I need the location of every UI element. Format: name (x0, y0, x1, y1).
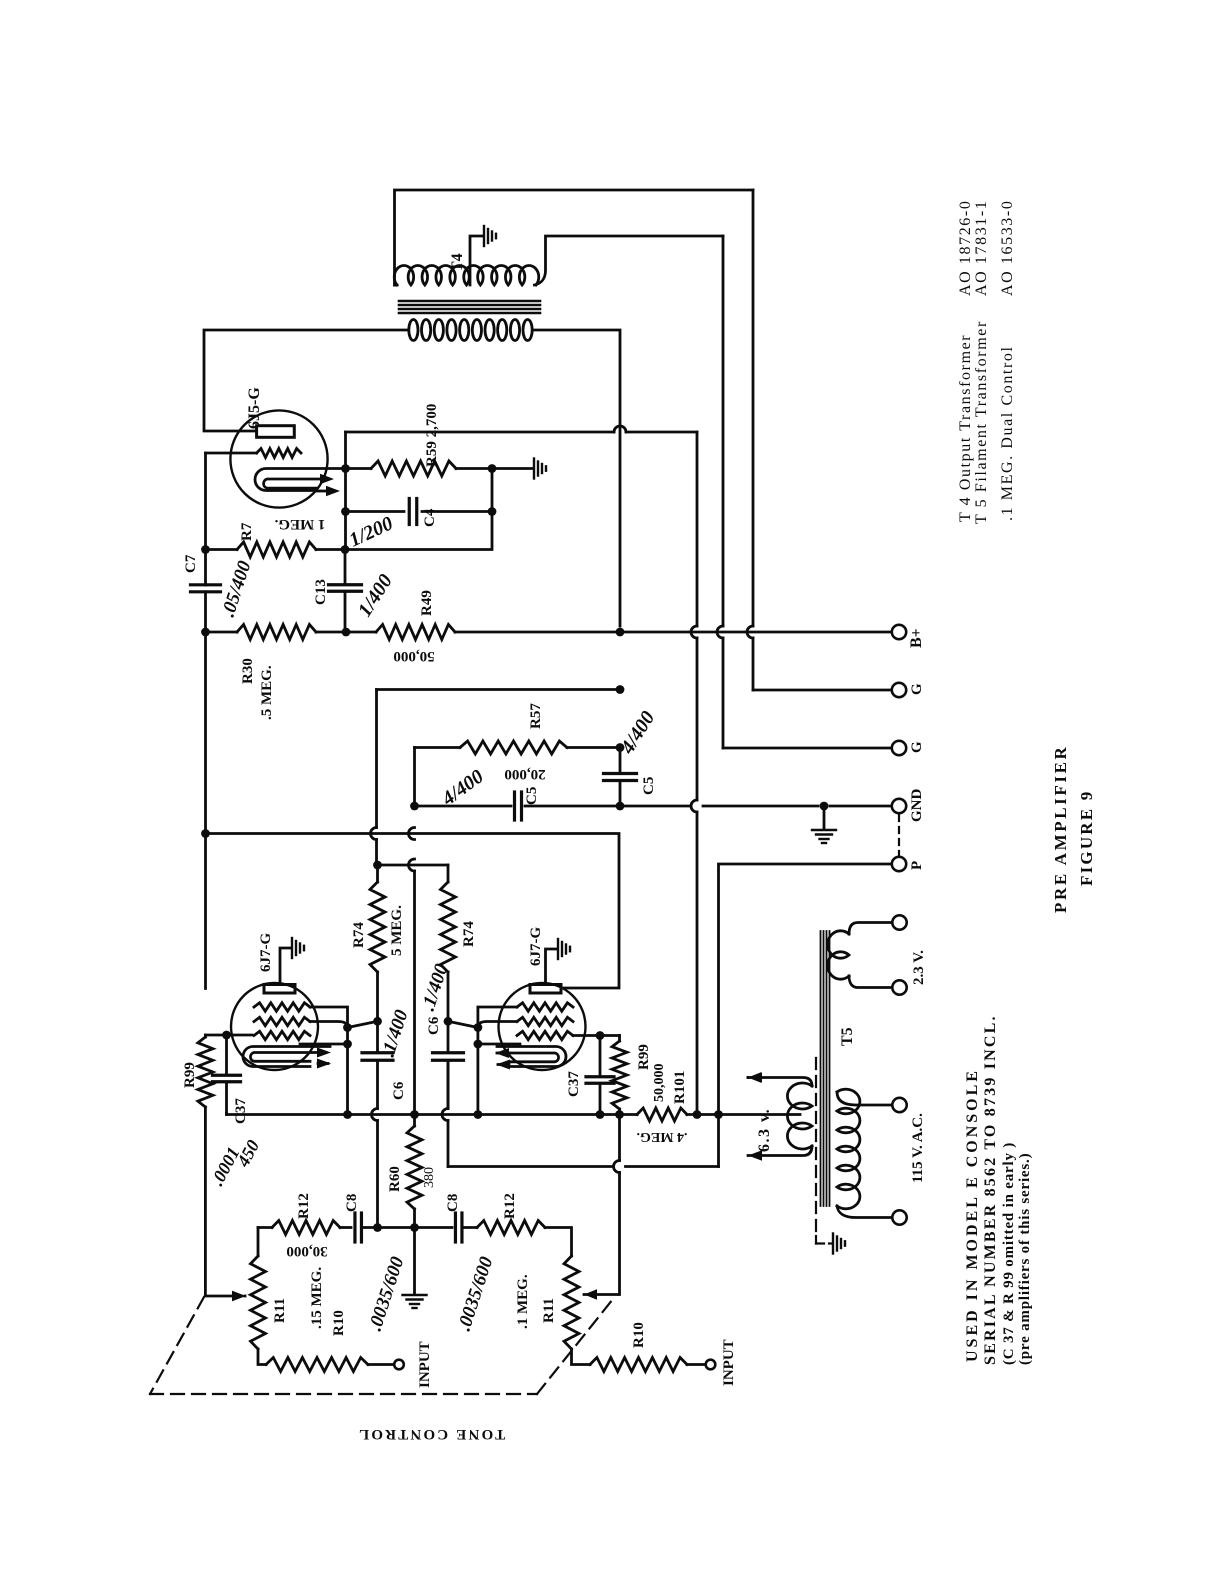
6J7 left plate (264, 985, 295, 994)
tone control dashed outline (150, 1297, 204, 1394)
svg-text:FIGURE 9: FIGURE 9 (1077, 790, 1096, 886)
terminal P (892, 857, 906, 871)
T5 core dashed (815, 1058, 817, 1236)
6J7 left cathode (243, 1047, 330, 1067)
svg-text:R101: R101 (672, 1071, 688, 1104)
ground at C8 row (413, 1228, 416, 1294)
svg-text:.4 MEG.: .4 MEG. (637, 1129, 688, 1144)
node C37 left top (222, 1031, 231, 1040)
svg-text:USED IN MODEL E CONSOLE: USED IN MODEL E CONSOLE (964, 1068, 981, 1362)
svg-text:.15 MEG.: .15 MEG. (309, 1267, 325, 1329)
svg-text:C13: C13 (313, 579, 329, 605)
wire R74 top row (378, 864, 449, 867)
transformer T5 primary winding (837, 1092, 893, 1105)
terminal 115V lower (892, 1210, 906, 1224)
T5 core solid (820, 931, 822, 1206)
6J7 left cathode arrows (317, 1048, 331, 1058)
node row3b (343, 1040, 352, 1049)
capacitor C37 right (599, 1036, 602, 1076)
resistor R59 (347, 467, 371, 470)
node B+ bus junction (616, 628, 625, 637)
node R74/C6 right (444, 1017, 453, 1026)
node R74 left top (373, 861, 382, 870)
6J7 right plate (530, 985, 561, 994)
svg-text:.1 MEG. Dual Control: .1 MEG. Dual Control (999, 345, 1016, 521)
capacitor C6 right (447, 1021, 450, 1052)
wire 6J7 left row3a to R99 (205, 1034, 252, 1037)
arrow R11 right wiper (584, 1293, 618, 1296)
svg-text:R57: R57 (528, 703, 544, 729)
wire T4 primary right lead (534, 330, 620, 626)
node row2 right junction (474, 1023, 483, 1032)
wire G2 row left segment (415, 746, 461, 749)
wire rail to R99 bottom (204, 1107, 207, 1295)
svg-text:R12: R12 (502, 1193, 518, 1219)
wire center column upper (413, 748, 416, 807)
ground at R59 (533, 459, 535, 479)
svg-text:T4: T4 (449, 253, 466, 272)
node GND ground stub (820, 802, 829, 811)
svg-text:C8: C8 (344, 1194, 360, 1212)
svg-text:1 MEG.: 1 MEG. (274, 516, 325, 532)
6J5 grid (257, 449, 301, 458)
wire P terminal lead (719, 864, 892, 1111)
wire 6J7 left row1 (310, 1007, 348, 1111)
svg-text:6J7-G: 6J7-G (258, 933, 274, 972)
terminal G2 (892, 741, 906, 755)
resistor R74 right (441, 882, 456, 972)
svg-text:AO 17831-1: AO 17831-1 (973, 200, 990, 296)
capacitor C7 (191, 583, 221, 586)
node cathode junction (341, 464, 350, 473)
svg-text:6J5-G: 6J5-G (246, 387, 263, 429)
transformer T5 6.3V winding (787, 1083, 812, 1149)
potentiometer R11 left (251, 1256, 266, 1349)
terminal INPUT right (706, 1360, 716, 1370)
ground at GND terminal (823, 806, 826, 828)
svg-text:R60: R60 (387, 1166, 403, 1192)
jog C6 right column over bus (442, 1109, 448, 1121)
svg-text:6J7-G: 6J7-G (528, 927, 544, 966)
bus junction nodes (343, 1110, 352, 1119)
resistor R57 (460, 741, 567, 754)
svg-text:GND: GND (909, 789, 925, 823)
node rail row B (201, 829, 210, 838)
resistor R7 (206, 548, 238, 551)
terminal G1 (892, 683, 906, 697)
wire C8 row right (415, 1226, 453, 1229)
jog R11 feed over coupling row (614, 1161, 620, 1173)
wire 6J7 left row3b (300, 1043, 348, 1046)
resistor R10 right (572, 1349, 591, 1365)
wire G1 terminal lead (753, 689, 891, 692)
resistor R99 left (204, 1035, 207, 1037)
node C8 row left (373, 1223, 382, 1232)
wire C6 left column to C8 row (376, 1121, 379, 1228)
svg-text:G: G (909, 741, 925, 753)
wire 6.3V center tap (719, 1113, 801, 1116)
svg-text:R30: R30 (240, 658, 256, 684)
capacitor C37 left (225, 1035, 228, 1074)
node C4 right (488, 507, 497, 516)
resistor R60 (413, 1115, 416, 1127)
6J7 right grid cap lead (546, 949, 557, 984)
svg-text:C8: C8 (445, 1194, 461, 1212)
wire coupling row y=1166.5 (626, 1165, 719, 1168)
arrow R11 left wiper (244, 1295, 247, 1298)
terminal INPUT left (394, 1360, 404, 1370)
wire cathode junction column (344, 432, 347, 550)
wire GND row (415, 805, 512, 808)
svg-text:T5: T5 (839, 1027, 856, 1046)
svg-text:R74: R74 (351, 922, 367, 948)
6J7 left grid cap lead (280, 948, 290, 984)
svg-text:C4: C4 (422, 508, 438, 527)
resistor R12 left (258, 1226, 272, 1229)
wire bus x=723 from T4 to G terminal (722, 236, 725, 626)
svg-text:30,000: 30,000 (286, 1243, 327, 1259)
svg-text:C37: C37 (566, 1071, 582, 1097)
svg-text:R99: R99 (636, 1044, 652, 1070)
svg-text:20,000: 20,000 (504, 766, 545, 782)
resistor R99 right (618, 1036, 621, 1042)
wire C8 row middle (378, 1226, 415, 1229)
node row2 junction (343, 1023, 352, 1032)
wire R74 left bottom lead (376, 972, 379, 1021)
wire R59/C4 right return (346, 469, 493, 550)
wire 6J7 right row3b (478, 1043, 520, 1046)
capacitor C8 right (454, 1213, 457, 1242)
wire G1 row left segment (377, 688, 621, 691)
terminal GND (892, 799, 906, 813)
svg-text:R74: R74 (461, 921, 477, 947)
svg-text:C5: C5 (524, 787, 540, 805)
svg-text:AO 16533-0: AO 16533-0 (999, 200, 1016, 296)
svg-text:6.3 v.: 6.3 v. (756, 1108, 773, 1152)
wire T4 center tap (470, 236, 482, 285)
node row3b right (474, 1040, 483, 1049)
svg-text:.1 MEG.: .1 MEG. (515, 1274, 531, 1329)
wire T5 core ground lead (815, 1236, 817, 1244)
wire T4 secondary top lead (395, 190, 754, 285)
terminal 2.3V lower (892, 980, 906, 994)
svg-text:G: G (909, 683, 925, 695)
svg-text:C6: C6 (426, 1016, 442, 1035)
wire left rail upper (204, 453, 207, 585)
6J7 right cathode (497, 1047, 566, 1067)
svg-text:SERIAL NUMBER 8562 TO 8739 INC: SERIAL NUMBER 8562 TO 8739 INCL. (982, 1014, 999, 1365)
svg-text:380: 380 (422, 1167, 437, 1188)
svg-text:R49: R49 (419, 590, 435, 616)
svg-text:R99: R99 (182, 1062, 198, 1088)
svg-text:AO 18726-0: AO 18726-0 (957, 200, 974, 296)
wire right bus from top line to G terminal (752, 190, 755, 626)
node G1 row (616, 685, 625, 694)
svg-text:R10: R10 (331, 1310, 347, 1336)
svg-text:50,000: 50,000 (652, 1064, 667, 1103)
wire 6J7 left row2 (310, 1021, 378, 1027)
node GND bus (616, 802, 625, 811)
wire 6J7 right row3a (573, 1034, 620, 1037)
wire common bus (227, 1113, 638, 1116)
wire left rail lower (204, 592, 207, 989)
svg-text:C6: C6 (391, 1081, 407, 1100)
svg-text:P: P (909, 861, 925, 870)
wire C6 right column to coupling row (447, 1061, 450, 1109)
capacitor C5 bypass (619, 748, 622, 773)
svg-text:R10: R10 (631, 1322, 647, 1348)
svg-text:B+: B+ (908, 628, 925, 648)
wire R11 right feed (618, 1119, 621, 1161)
svg-text:.5 MEG.: .5 MEG. (259, 665, 275, 720)
terminal 2.3V upper (892, 915, 906, 929)
node R74/C6 left (373, 1017, 382, 1026)
node rail B+ row (201, 628, 210, 637)
svg-text:(pre amplifiers of this series: (pre amplifiers of this series.) (1017, 1153, 1033, 1365)
6J5 plate (257, 426, 295, 438)
jog C6 left column over bus (372, 1109, 378, 1121)
wire C37 left bottom corner (225, 1113, 228, 1115)
6J7 left grids (254, 1003, 310, 1011)
terminal B+ (892, 625, 906, 639)
ground at 6J7 right grid cap (557, 939, 559, 959)
svg-text:(C 37 & R 99 omitted in early: (C 37 & R 99 omitted in early ) (1001, 1142, 1017, 1365)
node R7 right junction (341, 545, 350, 554)
node C37 right top (596, 1031, 605, 1040)
arrow 6.3V upper (747, 1076, 750, 1079)
wire T4 primary left lead to 6J5 plate (204, 330, 407, 431)
6J7 right cathode arrows (497, 1052, 509, 1055)
wire P column lower (717, 1119, 720, 1167)
T4 core (399, 300, 540, 303)
svg-text:50,000: 50,000 (393, 648, 434, 664)
wire GND-P dashed link (898, 815, 900, 855)
capacitor C5 on GND row (513, 792, 516, 820)
arrow 6.3V lower (748, 1146, 812, 1156)
transformer T4 primary winding (409, 320, 418, 341)
node G2 row (616, 743, 625, 752)
svg-text:R11: R11 (272, 1298, 288, 1323)
6J5 cathode (255, 469, 347, 491)
node R59 right (488, 464, 497, 473)
6J7 right grids (517, 1003, 573, 1011)
svg-text:R12: R12 (296, 1193, 312, 1219)
svg-text:C5: C5 (641, 777, 657, 795)
wire G2 terminal lead (723, 747, 891, 750)
capacitor C4 (408, 499, 411, 525)
tube 6J7-G right envelope (499, 983, 586, 1070)
svg-text:R59 2,700: R59 2,700 (424, 404, 440, 467)
wire row B to right 6J7 plate (206, 834, 620, 989)
svg-text:TONE CONTROL: TONE CONTROL (357, 1426, 505, 1442)
svg-text:5 MEG.: 5 MEG. (389, 905, 405, 956)
resistor R30 (206, 631, 238, 634)
svg-text:T 5 Filament Transformer: T 5 Filament Transformer (973, 320, 990, 524)
capacitor C8 left (353, 1213, 356, 1242)
svg-text:2.3 V.: 2.3 V. (911, 950, 927, 985)
tube 6J7-G left envelope (231, 983, 318, 1070)
tube 6J5-G envelope (230, 410, 327, 507)
resistor R10 left (258, 1349, 266, 1365)
node rail R7 (201, 545, 210, 554)
ground at 6J7 left grid cap (291, 938, 293, 958)
node GND row left (410, 802, 419, 811)
potentiometer R11 right (564, 1256, 579, 1349)
capacitor C13 (344, 550, 347, 584)
wire long bus x=697 (696, 432, 699, 626)
svg-text:R7: R7 (239, 522, 255, 541)
wire column to R74 left (375, 690, 378, 828)
wire 6J5 grid lead (206, 452, 257, 455)
node C8 row center (410, 1223, 419, 1232)
wire R74 right bottom lead (447, 972, 450, 1021)
svg-text:INPUT: INPUT (417, 1341, 433, 1388)
wire 6J7 right row1 (478, 1007, 517, 1111)
transformer T4 secondary winding (395, 284, 398, 287)
resistor R74 left (376, 865, 379, 882)
svg-text:115 V. A.C.: 115 V. A.C. (910, 1113, 926, 1183)
svg-text:C7: C7 (183, 554, 199, 573)
transformer T5 2.3V winding (849, 923, 893, 935)
svg-text:PRE AMPLIFIER: PRE AMPLIFIER (1051, 745, 1070, 913)
wire 6J7 right row2 (448, 1021, 517, 1027)
resistor R12 right (462, 1226, 477, 1229)
wire to ground (492, 467, 532, 470)
svg-text:C37: C37 (233, 1098, 249, 1124)
node C4 left (341, 507, 350, 516)
svg-text:T 4 Output Transformer: T 4 Output Transformer (957, 334, 974, 522)
ground at T4 center tap (483, 226, 485, 246)
node R30/R49/C13 (342, 628, 351, 637)
capacitor C6 left (376, 1021, 379, 1052)
wire plate feedback line (346, 431, 615, 434)
resistor R101 (637, 1108, 687, 1121)
terminal 115V upper (892, 1098, 906, 1112)
svg-text:R11: R11 (541, 1298, 557, 1323)
ground at T5 core (832, 1234, 834, 1254)
resistor R49 (346, 631, 376, 634)
wire C4 row (346, 510, 405, 513)
wire T4 secondary right lead (535, 236, 724, 285)
svg-text:INPUT: INPUT (721, 1339, 737, 1386)
